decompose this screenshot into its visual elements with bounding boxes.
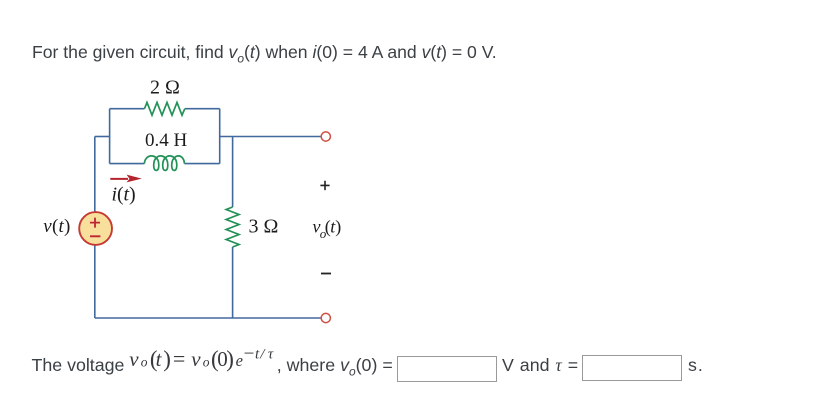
svg-text:o: o — [203, 355, 210, 370]
svg-text:τ: τ — [268, 346, 274, 362]
svg-text:v: v — [43, 216, 52, 237]
svg-text:): ) — [335, 216, 341, 237]
svg-text:2 Ω: 2 Ω — [150, 77, 180, 99]
svg-text:(: ( — [52, 216, 58, 237]
svg-text:t: t — [156, 347, 163, 371]
svg-text:3 Ω: 3 Ω — [249, 216, 279, 238]
svg-text:): ) — [129, 184, 136, 206]
svg-text:0.4 H: 0.4 H — [145, 130, 188, 151]
svg-text:v: v — [191, 347, 201, 371]
svg-text:e: e — [236, 351, 243, 370]
svg-text:): ) — [163, 347, 171, 372]
svg-text:o: o — [141, 355, 148, 370]
svg-text:): ) — [226, 347, 234, 372]
svg-text:): ) — [64, 216, 70, 237]
svg-text:=: = — [173, 346, 185, 371]
svg-text:/: / — [259, 346, 266, 362]
svg-text:−: − — [244, 343, 255, 364]
svg-text:v: v — [129, 347, 139, 371]
